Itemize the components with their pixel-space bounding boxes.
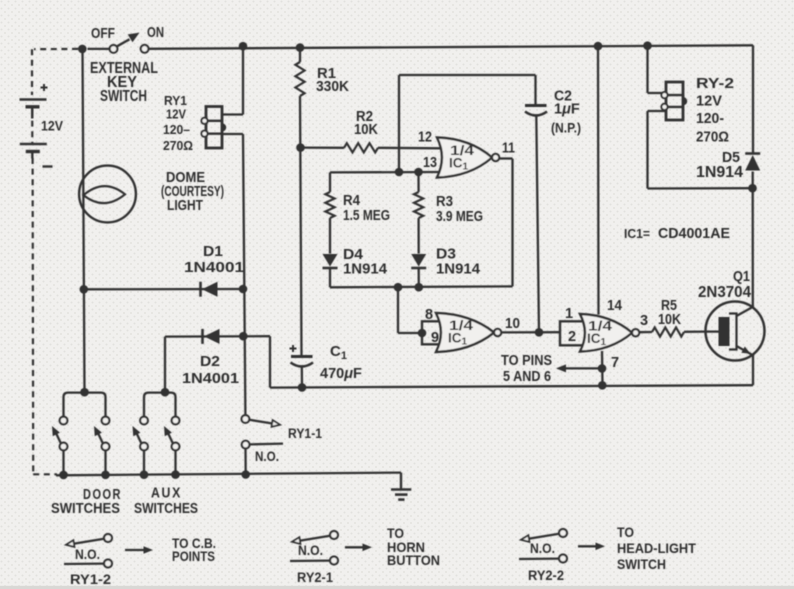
svg-text:12V: 12V: [166, 108, 187, 122]
svg-text:3: 3: [640, 313, 648, 329]
svg-text:2: 2: [568, 329, 576, 345]
svg-text:(N.P.): (N.P.): [551, 120, 581, 136]
svg-text:OFF: OFF: [91, 25, 115, 42]
svg-text:RY2-1: RY2-1: [297, 570, 333, 585]
svg-text:POINTS: POINTS: [172, 548, 215, 564]
svg-text:N.O.: N.O.: [298, 543, 323, 558]
svg-text:Q1: Q1: [733, 268, 750, 285]
svg-text:SWITCH: SWITCH: [100, 88, 147, 105]
svg-text:1.5 MEG: 1.5 MEG: [343, 207, 390, 224]
svg-text:TO: TO: [617, 524, 634, 540]
svg-text:N.O.: N.O.: [75, 547, 100, 562]
svg-text:120-: 120-: [696, 111, 724, 127]
svg-text:8: 8: [425, 307, 433, 323]
svg-text:ON: ON: [147, 24, 164, 41]
svg-text:LIGHT: LIGHT: [167, 197, 203, 214]
svg-text:10K: 10K: [354, 121, 378, 138]
svg-text:1N914: 1N914: [696, 164, 743, 181]
svg-text:1μF: 1μF: [554, 102, 580, 118]
svg-text:470μF: 470μF: [320, 366, 362, 382]
svg-text:SWITCH: SWITCH: [617, 556, 666, 572]
svg-text:10: 10: [505, 316, 520, 332]
svg-text:2N3704: 2N3704: [698, 284, 751, 301]
svg-text:N.O.: N.O.: [530, 541, 555, 556]
svg-text:10K: 10K: [658, 311, 681, 328]
svg-text:12: 12: [418, 130, 432, 146]
svg-text:11: 11: [502, 141, 515, 157]
svg-text:270Ω: 270Ω: [696, 130, 729, 146]
svg-text:RY-2: RY-2: [696, 76, 734, 92]
svg-text:13: 13: [423, 155, 437, 171]
svg-text:RY1-2: RY1-2: [70, 572, 111, 587]
svg-text:SWITCHES: SWITCHES: [134, 501, 198, 517]
svg-text:RY2-2: RY2-2: [528, 568, 564, 583]
svg-text:AUX: AUX: [151, 486, 182, 502]
svg-text:HEAD-LIGHT: HEAD-LIGHT: [617, 540, 696, 556]
svg-text:RY1: RY1: [164, 94, 187, 108]
svg-text:1N4001: 1N4001: [182, 370, 239, 387]
svg-text:14: 14: [607, 298, 622, 314]
svg-text:12V: 12V: [41, 119, 63, 134]
svg-text:270Ω: 270Ω: [163, 138, 193, 153]
svg-text:330K: 330K: [316, 78, 349, 95]
svg-text:120–: 120–: [163, 123, 190, 137]
svg-text:RY1-1: RY1-1: [288, 426, 322, 441]
svg-text:5 AND 6: 5 AND 6: [503, 369, 551, 385]
svg-text:1N914: 1N914: [436, 261, 481, 278]
svg-text:N.O.: N.O.: [255, 449, 279, 464]
svg-text:1N914: 1N914: [343, 261, 388, 278]
svg-text:CD4001AE: CD4001AE: [658, 225, 730, 242]
svg-text:D2: D2: [200, 353, 220, 370]
svg-text:7: 7: [611, 355, 619, 371]
svg-text:TO PINS: TO PINS: [501, 353, 552, 369]
svg-text:SWITCHES: SWITCHES: [51, 501, 120, 517]
svg-text:9: 9: [431, 330, 439, 346]
svg-text:3.9 MEG: 3.9 MEG: [436, 208, 483, 225]
svg-text:BUTTON: BUTTON: [387, 552, 440, 568]
svg-text:12V: 12V: [696, 94, 722, 110]
svg-text:1N4001: 1N4001: [184, 259, 244, 276]
svg-text:IC1=: IC1=: [624, 226, 650, 241]
svg-text:1: 1: [565, 306, 573, 322]
svg-text:D1: D1: [203, 243, 223, 260]
